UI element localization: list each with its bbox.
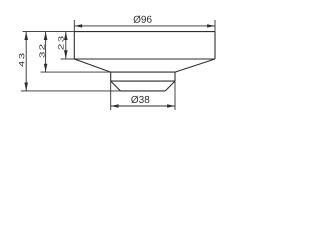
extension line 32 bottom bbox=[41, 71, 111, 73]
label d32 bbox=[39, 44, 44, 57]
arrowhead dia38 left bbox=[111, 104, 119, 107]
arrowhead 32 top bbox=[44, 32, 48, 40]
cylinder left chamfer bbox=[111, 81, 121, 91]
dimension line 43 bbox=[25, 32, 27, 91]
extension line rim-bottom left bbox=[61, 58, 75, 60]
dimension line dia96 bbox=[74, 25, 215, 27]
dimension line 23 bbox=[65, 32, 67, 59]
cone left slant bbox=[74, 59, 110, 72]
dimension line 32 bbox=[45, 32, 47, 73]
fixture rim right edge bbox=[214, 32, 216, 59]
cylinder top edge bbox=[111, 71, 175, 73]
fixture rim bottom edge bbox=[74, 58, 215, 60]
cone right slant bbox=[175, 59, 215, 72]
arrowhead dia96 right bbox=[207, 24, 215, 27]
extension line dia38 left bbox=[110, 81, 112, 110]
extension line top-left bbox=[23, 31, 75, 33]
label d23 bbox=[58, 36, 63, 49]
extension line dia38 right bbox=[174, 81, 176, 110]
fixture rim left edge bbox=[73, 32, 75, 59]
cylinder right side bbox=[174, 72, 176, 81]
dimension line dia38 bbox=[111, 105, 175, 107]
cylinder left side bbox=[110, 72, 112, 81]
arrowhead 23 bottom bbox=[64, 50, 68, 59]
cylinder bottom edge bbox=[120, 90, 165, 92]
extension line dia96 right bbox=[214, 20, 216, 32]
label d43 bbox=[19, 53, 24, 66]
extension line dia96 left bbox=[73, 20, 75, 32]
cylinder right chamfer bbox=[165, 81, 175, 91]
arrowhead 32 bottom bbox=[44, 64, 48, 72]
arrowhead 43 bottom bbox=[24, 83, 28, 91]
arrowhead dia96 left bbox=[75, 24, 83, 27]
fixture rim top edge bbox=[74, 31, 215, 33]
extension line 43 bottom bbox=[21, 90, 121, 92]
label dia96 bbox=[134, 16, 152, 23]
cylinder mid edge bbox=[111, 80, 175, 82]
arrowhead 23 top bbox=[64, 32, 68, 40]
arrowhead dia38 right bbox=[167, 104, 175, 107]
arrowhead 43 top bbox=[24, 32, 28, 40]
label dia38 bbox=[131, 96, 149, 103]
